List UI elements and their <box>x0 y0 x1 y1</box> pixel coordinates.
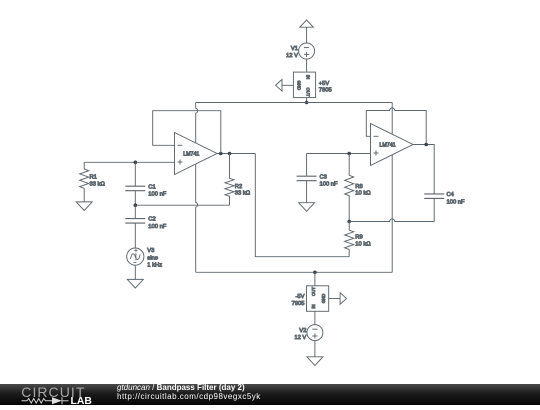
svg-text:V1: V1 <box>291 46 298 52</box>
label V3 sine 1 kHz <box>147 248 162 268</box>
ground under C3 <box>299 203 315 212</box>
footer title text <box>117 384 261 401</box>
capacitor C2 <box>125 205 145 248</box>
svg-text:sine: sine <box>147 255 158 261</box>
capacitor C1 <box>125 162 145 205</box>
label C4 100 nF <box>447 192 466 205</box>
svg-text:OUT: OUT <box>306 87 311 96</box>
svg-text:100 nF: 100 nF <box>148 224 167 230</box>
wire 7905 to V2 <box>314 311 316 324</box>
svg-text:R8: R8 <box>355 184 362 190</box>
junction -5V rail <box>313 271 317 275</box>
wire U1 feedback loop <box>153 111 221 154</box>
svg-text:R2: R2 <box>235 184 242 190</box>
svg-text:LM741: LM741 <box>183 152 199 158</box>
junction C1 top <box>134 161 138 165</box>
ground under R1 <box>76 202 92 211</box>
svg-text:LM741: LM741 <box>379 143 395 149</box>
wire +5V rail <box>196 102 393 104</box>
svg-text:V3: V3 <box>147 248 154 254</box>
junction U1 out feedback tap <box>219 152 223 156</box>
svg-text:33 kΩ: 33 kΩ <box>90 181 106 187</box>
svg-text:+5V: +5V <box>319 81 330 87</box>
svg-text:1 kHz: 1 kHz <box>147 262 162 268</box>
svg-text:C2: C2 <box>148 217 155 223</box>
svg-text:LAB: LAB <box>71 396 93 405</box>
svg-text:C1: C1 <box>148 184 155 190</box>
wire U1 output down and right to R9 <box>255 154 349 257</box>
wire U2 V- to -5V rail <box>391 155 393 272</box>
junction node A <box>134 203 138 207</box>
label V1 12 V <box>286 46 298 59</box>
gnd flag at 7905 <box>329 293 347 305</box>
junction U2 out <box>424 143 428 147</box>
svg-text:V2: V2 <box>299 328 306 334</box>
wire U1 output <box>217 153 255 155</box>
wire U1 + input line <box>84 161 174 163</box>
resistor R8 <box>345 154 354 222</box>
svg-text:IN: IN <box>311 304 316 308</box>
wire U2 feedback loop (hops V+ wire) <box>366 108 426 145</box>
svg-text:10 kΩ: 10 kΩ <box>355 241 371 247</box>
junction R8 top <box>347 152 351 156</box>
label C1 100 nF <box>148 184 167 197</box>
gnd flag at 7805 <box>276 80 294 92</box>
label R9 10 kOhm <box>355 234 371 247</box>
voltage source V2 <box>307 325 323 341</box>
CircuitLab logo <box>15 384 115 405</box>
svg-text:7905: 7905 <box>292 301 305 307</box>
voltage source V3 sine <box>127 248 144 265</box>
svg-text:R1: R1 <box>90 175 97 181</box>
wire -5V rail to 7905 OUT <box>314 272 316 286</box>
svg-text:100 nF: 100 nF <box>148 192 167 198</box>
label +5V 7805 <box>319 81 332 94</box>
resistor R9 <box>345 222 354 257</box>
svg-text:100 nF: 100 nF <box>447 199 466 205</box>
wire +5V rail to op-amp U2 V+ <box>391 103 393 135</box>
wire U2 output to C4 <box>413 145 434 194</box>
junction at +5V rail <box>305 101 309 105</box>
capacitor C4 <box>424 194 444 222</box>
wire -5V rail <box>196 271 393 273</box>
svg-text:33 kΩ: 33 kΩ <box>235 191 251 197</box>
junction U1 out R2 tap <box>228 152 232 156</box>
ground under V2 <box>307 357 323 366</box>
label R2 33 kOhm <box>235 184 251 197</box>
wire R2 bottom to node A <box>135 204 229 206</box>
svg-text:12 V: 12 V <box>294 335 306 341</box>
wire V1 to 7805 <box>306 59 308 72</box>
svg-text:OUT: OUT <box>311 287 316 296</box>
svg-text:GND: GND <box>297 81 302 91</box>
label R1 33 kOhm <box>90 175 106 188</box>
voltage source V1 <box>299 43 315 59</box>
resistor R2 <box>225 154 234 206</box>
svg-text:C3: C3 <box>320 174 327 180</box>
svg-text:GND: GND <box>321 294 326 304</box>
svg-text:7805: 7805 <box>319 88 332 94</box>
voltage regulator 7905 <box>307 286 329 312</box>
svg-text:12 V: 12 V <box>286 53 298 59</box>
resistor R1 <box>80 162 89 202</box>
voltage regulator 7805 <box>293 72 315 98</box>
op-amp U1 LM741 <box>175 133 218 175</box>
label V2 12 V <box>294 328 306 341</box>
wire 7805 OUT to +5V rail <box>306 98 308 103</box>
op-amp U2 LM741 <box>371 124 414 166</box>
svg-text:C4: C4 <box>447 192 455 198</box>
label C3 100 nF <box>320 174 339 187</box>
wire V2 to ground <box>314 341 316 357</box>
wire R8-R9 node to C4 (hops U2 V- wire) <box>349 219 434 222</box>
svg-text:IN: IN <box>306 75 311 79</box>
ground under V3 <box>127 279 143 288</box>
label R8 10 kOhm <box>355 184 371 197</box>
wire +5V rail to op-amp U1 V+ (hops feedback) <box>196 103 198 144</box>
wire U2 + input line <box>307 153 371 155</box>
junction R8-R9 node <box>347 220 351 224</box>
svg-text:100 nF: 100 nF <box>320 182 339 188</box>
svg-text:-5V: -5V <box>295 294 304 300</box>
wire U1 V- to -5V rail (hops C1-R2 line) <box>196 164 198 272</box>
+V terminal arrow <box>300 20 314 43</box>
capacitor C3 <box>297 154 317 203</box>
footer bar <box>0 384 540 405</box>
svg-text:R9: R9 <box>355 234 362 240</box>
svg-text:10 kΩ: 10 kΩ <box>355 191 371 197</box>
label -5V 7905 <box>292 294 305 307</box>
wire V3 to ground <box>134 265 136 279</box>
label C2 100 nF <box>148 217 167 230</box>
